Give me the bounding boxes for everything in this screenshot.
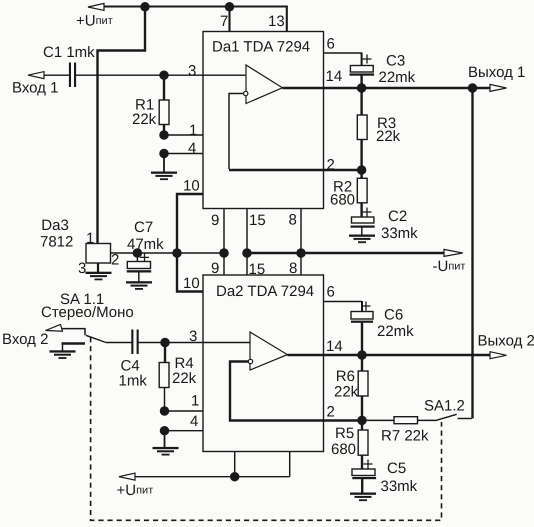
svg-text:22k: 22k (334, 384, 359, 401)
svg-text:10: 10 (183, 178, 200, 195)
svg-text:C7: C7 (134, 219, 153, 236)
svg-text:C5: C5 (387, 460, 406, 477)
svg-text:SA1.2: SA1.2 (424, 398, 465, 415)
svg-text:Стерео/Моно: Стерео/Моно (41, 304, 134, 321)
svg-text:Da3: Da3 (41, 217, 69, 234)
svg-text:4: 4 (188, 140, 196, 157)
svg-text:C6: C6 (384, 307, 403, 324)
svg-text:13: 13 (268, 13, 285, 30)
svg-text:C1 1mk: C1 1mk (43, 44, 95, 61)
svg-text:22k: 22k (376, 128, 401, 145)
svg-text:8: 8 (289, 260, 297, 277)
svg-text:680: 680 (330, 192, 355, 209)
svg-text:3: 3 (189, 328, 197, 345)
svg-text:R7 22k: R7 22k (381, 428, 429, 445)
svg-text:Вход 2: Вход 2 (2, 331, 48, 348)
svg-text:2: 2 (327, 403, 335, 420)
svg-text:C2: C2 (388, 208, 407, 225)
svg-text:33mk: 33mk (381, 225, 418, 242)
svg-text:Da2 TDA 7294: Da2 TDA 7294 (216, 283, 314, 300)
svg-text:14: 14 (326, 68, 343, 85)
svg-text:4: 4 (190, 413, 198, 430)
svg-text:33mk: 33mk (381, 478, 418, 495)
svg-text:47mk: 47mk (127, 236, 164, 253)
svg-text:Выход 1: Выход 1 (468, 64, 525, 81)
svg-text:Выход 2: Выход 2 (478, 332, 534, 349)
svg-text:1: 1 (86, 230, 94, 247)
svg-text:2: 2 (111, 252, 119, 269)
svg-text:14: 14 (326, 338, 343, 355)
svg-text:9: 9 (211, 260, 219, 277)
svg-text:R5: R5 (335, 425, 354, 442)
svg-text:22k: 22k (132, 111, 157, 128)
svg-text:2: 2 (327, 156, 335, 173)
svg-text:680: 680 (331, 441, 356, 458)
svg-text:1: 1 (189, 122, 197, 139)
svg-text:6: 6 (327, 36, 335, 53)
svg-text:8: 8 (289, 212, 297, 229)
svg-text:Da1 TDA 7294: Da1 TDA 7294 (212, 39, 310, 56)
svg-text:1mk: 1mk (119, 373, 148, 390)
svg-text:15: 15 (249, 212, 266, 229)
svg-text:22k: 22k (172, 370, 197, 387)
svg-text:22mk: 22mk (377, 323, 414, 340)
svg-text:R6: R6 (336, 368, 355, 385)
svg-text:3: 3 (78, 260, 86, 277)
svg-text:-Uпит: -Uпит (433, 258, 466, 275)
svg-text:7812: 7812 (40, 233, 73, 250)
svg-text:+Uпит: +Uпит (117, 482, 154, 499)
svg-text:10: 10 (183, 275, 200, 292)
svg-text:3: 3 (188, 63, 196, 80)
svg-text:22mk: 22mk (379, 69, 416, 86)
svg-text:15: 15 (249, 261, 266, 278)
svg-text:6: 6 (327, 284, 335, 301)
svg-text:9: 9 (211, 212, 219, 229)
svg-text:Вход 1: Вход 1 (12, 80, 58, 97)
svg-text:C3: C3 (386, 53, 405, 70)
svg-text:7: 7 (220, 13, 228, 30)
svg-text:+Uпит: +Uпит (76, 13, 113, 30)
svg-text:1: 1 (191, 393, 199, 410)
